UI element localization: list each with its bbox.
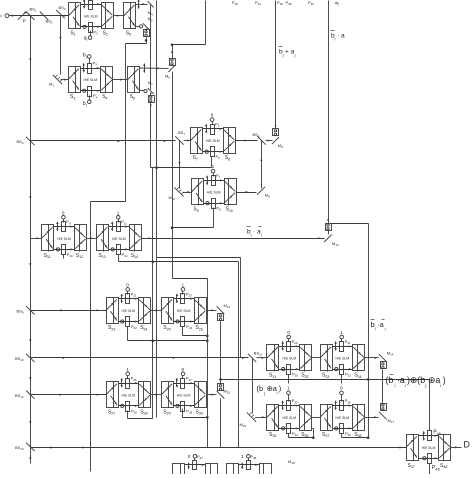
polarizer P24 <box>181 317 193 331</box>
svg-text:i: i <box>261 233 262 238</box>
svg-text:· a: · a <box>337 33 345 40</box>
svg-text:j: j <box>263 390 265 395</box>
polarizing splitter S3 <box>68 67 81 101</box>
source bi <box>83 96 91 108</box>
polarizing combiner S30 <box>195 382 207 416</box>
beamsplitter BS11 <box>248 351 263 363</box>
lens <box>176 293 178 303</box>
waveplate <box>206 202 209 205</box>
wire <box>114 15 124 17</box>
modulator M8 <box>273 129 279 136</box>
svg-text:H/E SLM: H/E SLM <box>112 237 126 241</box>
mirror M8 <box>272 137 283 149</box>
wire out D <box>451 446 462 448</box>
wire <box>429 464 431 475</box>
SLM text <box>122 393 136 397</box>
svg-text:i: i <box>395 383 396 388</box>
source 0 <box>188 454 197 461</box>
wire <box>126 43 147 45</box>
modulator <box>144 30 150 37</box>
polarizer P12 <box>117 245 128 258</box>
wire bus <box>240 258 242 358</box>
beamsplitter BS9 <box>17 306 35 314</box>
svg-text:·a: ·a <box>377 320 384 329</box>
polarizing combiner S38 <box>353 405 365 439</box>
source 0 <box>210 113 214 125</box>
polarizing combiner S14 <box>130 225 142 260</box>
svg-text:0: 0 <box>340 385 343 390</box>
wire <box>204 202 225 204</box>
source ai <box>84 31 92 42</box>
polarizer P2 <box>89 23 99 36</box>
polarizing splitter S35 <box>267 405 279 439</box>
beamsplitter BS3 <box>56 5 66 18</box>
waveplate <box>423 457 426 460</box>
wire <box>171 44 206 47</box>
wire <box>9 15 69 17</box>
polarizing splitter S40 (cut) <box>227 464 239 475</box>
wire <box>125 44 127 202</box>
polarizing combiner S12 <box>75 225 87 260</box>
beamsplitter BS2 <box>40 12 53 25</box>
lens <box>143 63 145 73</box>
wire <box>239 464 260 466</box>
wire <box>205 1 207 45</box>
svg-text:j: j <box>424 383 426 388</box>
svg-text:j: j <box>282 53 284 58</box>
svg-text:0: 0 <box>287 330 290 335</box>
polarizer P37 <box>193 454 204 469</box>
wire bus <box>156 1 158 418</box>
cut label P32 <box>308 0 314 6</box>
polarizing splitter S27 <box>106 382 119 416</box>
svg-text:): ) <box>279 384 281 393</box>
polarizing splitter S9 <box>191 179 203 214</box>
SLM text <box>283 357 297 361</box>
beamsplitter BS12 <box>15 391 35 400</box>
waveplate <box>121 320 124 323</box>
wire <box>279 345 300 347</box>
polarizer P29 <box>287 339 298 352</box>
source 0 <box>126 283 130 295</box>
waveplate <box>83 89 86 92</box>
mirror M6 <box>165 65 176 80</box>
wire bus <box>367 370 383 404</box>
svg-text:H/E SLM: H/E SLM <box>177 309 191 313</box>
wire <box>257 357 267 359</box>
svg-text:1: 1 <box>117 210 120 215</box>
mirror M12 <box>324 234 339 247</box>
mirror M4 <box>148 1 154 16</box>
SLM text <box>283 416 297 420</box>
polarizing combiner S28 <box>139 382 151 416</box>
polarizer P26 <box>126 402 138 415</box>
beamsplitter BS7 <box>175 130 185 145</box>
source 1 <box>211 164 215 176</box>
modulator M7 <box>149 96 155 103</box>
wire <box>87 237 97 239</box>
label (bi.ai)xor(bj+ai) <box>386 375 446 388</box>
beamsplitter BS13 <box>15 443 35 452</box>
wire <box>151 394 162 396</box>
wire <box>54 248 75 250</box>
waveplate <box>335 427 338 430</box>
source 1 <box>126 367 130 379</box>
polarizing splitter S5 <box>124 3 136 37</box>
lens <box>282 341 284 351</box>
wire P30 down + source 1 <box>287 375 291 402</box>
wire <box>429 380 431 431</box>
label M18 <box>288 459 295 465</box>
cut label P18 <box>232 0 238 6</box>
SLM text <box>122 309 136 313</box>
lens <box>241 462 243 469</box>
label bj+aj <box>279 47 296 58</box>
modulator M15 <box>218 384 224 391</box>
polarizer P5 <box>211 122 220 135</box>
lens <box>176 378 178 388</box>
wire <box>140 67 169 69</box>
cut label P28 <box>286 0 292 6</box>
beamsplitter BS10 <box>15 354 35 362</box>
combiner (cut) <box>260 464 272 475</box>
wire bus <box>152 168 154 419</box>
wire row G <box>31 357 249 359</box>
polarizing splitter S39 (cut) <box>173 464 185 475</box>
wire <box>128 418 153 420</box>
wire <box>174 298 195 300</box>
polarizing combiner S32 <box>300 345 312 379</box>
beamsplitter BS4 <box>17 137 35 145</box>
svg-text:H/E SLM: H/E SLM <box>84 14 98 18</box>
polarizer P21 <box>126 291 137 303</box>
wire <box>207 309 217 311</box>
wire <box>419 435 439 437</box>
wire <box>61 79 69 81</box>
source bj <box>83 52 91 63</box>
polarizing splitter S13 <box>97 225 109 260</box>
svg-text:0: 0 <box>182 367 185 372</box>
polarizer P32 <box>340 365 352 378</box>
wire <box>171 45 173 59</box>
lens <box>335 341 337 351</box>
mirror M15 <box>217 388 231 398</box>
wire <box>81 90 101 92</box>
wire <box>151 309 162 311</box>
wire bus <box>238 262 240 448</box>
svg-text:0: 0 <box>62 210 65 215</box>
mirror M1 <box>49 75 62 88</box>
wire BS8-M9 <box>260 141 262 189</box>
wire <box>157 257 241 259</box>
svg-text:H/E SLM: H/E SLM <box>207 191 221 195</box>
wire <box>174 320 195 322</box>
SLM text <box>336 357 350 361</box>
polarizer P3 <box>88 61 98 74</box>
waveplate <box>176 404 179 407</box>
cut label P24 <box>255 0 261 6</box>
SLM text <box>112 237 126 241</box>
wire <box>109 248 130 250</box>
svg-text:H/E SLM: H/E SLM <box>57 237 71 241</box>
svg-text:1: 1 <box>340 330 343 335</box>
wire <box>119 405 139 407</box>
waveplate <box>56 248 59 251</box>
svg-text:i: i <box>440 383 441 388</box>
wire bus <box>219 322 222 384</box>
svg-text:⊕a: ⊕a <box>428 375 440 385</box>
polarizer P28 <box>181 402 193 415</box>
wire <box>174 405 195 407</box>
polarizing splitter S1 <box>68 3 80 37</box>
polarizer P8 <box>212 199 222 212</box>
label D <box>464 439 470 449</box>
polarizing combiner S10 <box>225 179 237 214</box>
wire <box>266 139 273 141</box>
svg-text:i: i <box>385 327 386 332</box>
wire <box>333 405 353 407</box>
modulator M6 <box>170 59 176 66</box>
lens <box>423 431 425 441</box>
lens <box>111 221 113 231</box>
lens <box>205 124 207 134</box>
polarizing splitter S7 <box>191 128 203 162</box>
wire <box>237 191 257 193</box>
SLM text <box>177 393 191 397</box>
polarizer P45 <box>428 430 441 441</box>
lens <box>282 400 284 410</box>
wire <box>333 368 353 370</box>
polarizer P9 <box>62 219 71 231</box>
svg-text:1: 1 <box>287 385 290 390</box>
wire BS7 down <box>178 141 180 189</box>
wire <box>81 3 102 5</box>
mirror M16 <box>240 413 257 429</box>
lens <box>56 221 58 231</box>
wire bus <box>368 224 370 438</box>
polarizer P31 <box>340 339 351 352</box>
lens <box>188 462 190 469</box>
beamsplitter BS1 <box>26 6 37 20</box>
SLM text <box>84 78 98 82</box>
wire <box>127 327 129 341</box>
wire <box>333 427 353 429</box>
polarizer P11 <box>117 219 128 231</box>
svg-text:i: i <box>405 383 406 388</box>
wire <box>203 128 224 130</box>
waveplate <box>335 368 338 371</box>
wire <box>312 357 321 359</box>
mirror M5 <box>143 16 153 29</box>
svg-text:i: i <box>277 390 278 395</box>
wire bus <box>327 1 329 224</box>
SLM text <box>422 446 436 450</box>
wire <box>203 151 224 153</box>
wire <box>174 382 195 384</box>
waveplate <box>83 25 86 28</box>
svg-text:H/E SLM: H/E SLM <box>206 139 220 143</box>
combiner (cut) <box>206 464 218 475</box>
beamsplitter BS8 <box>253 132 266 145</box>
cut label a)j <box>334 0 340 6</box>
wire bus <box>150 5 152 90</box>
wire <box>365 357 379 359</box>
polarizer P22 <box>126 317 138 331</box>
wire <box>183 191 192 193</box>
wire bus <box>220 399 222 448</box>
svg-text:H/E SLM: H/E SLM <box>283 357 297 361</box>
svg-text:i: i <box>375 327 376 332</box>
wire BS3 down <box>59 16 61 75</box>
polarizer P33 <box>287 398 298 410</box>
wire <box>127 411 129 419</box>
wire <box>81 67 101 69</box>
polarizer P <box>18 11 27 23</box>
wire <box>256 416 267 418</box>
label bi.a <box>331 31 346 42</box>
wire P28 loop <box>183 409 209 419</box>
polarizing splitter S6 <box>128 67 140 101</box>
mirror M17 <box>379 412 394 424</box>
wire <box>81 26 102 28</box>
svg-text:H/E SLM: H/E SLM <box>177 393 191 397</box>
label (bj xor ai) <box>257 384 282 395</box>
polarizing combiner S24 <box>139 298 151 332</box>
mirror M13 <box>217 303 231 314</box>
wire <box>136 3 148 5</box>
wire <box>221 379 430 381</box>
wire + junction <box>145 38 148 44</box>
polarizing combiner S8 <box>224 128 236 162</box>
source 1 <box>241 454 250 461</box>
waveplate <box>140 25 143 28</box>
svg-text:(b: (b <box>257 384 264 393</box>
wire <box>312 417 321 419</box>
wire <box>279 405 300 407</box>
wire <box>142 237 325 239</box>
lens <box>121 378 123 388</box>
source 1 <box>181 283 185 295</box>
polarizer P7 <box>212 173 221 186</box>
polarizer P10 <box>62 245 73 258</box>
wire <box>213 208 215 228</box>
svg-text:1: 1 <box>182 283 185 288</box>
waveplate <box>176 320 179 323</box>
polarizer P6 <box>211 147 221 161</box>
svg-text:+ a: + a <box>285 49 295 56</box>
polarizer P27 <box>181 376 193 389</box>
polarizer P23 <box>181 291 193 303</box>
source 0 <box>287 330 291 341</box>
svg-text:H/E SLM: H/E SLM <box>422 446 436 450</box>
wire <box>119 260 239 263</box>
polarizer P35 <box>340 398 351 410</box>
wire bus <box>150 103 152 168</box>
wire <box>113 79 128 81</box>
wire <box>63 255 65 259</box>
modulator M17 <box>381 404 387 411</box>
polarizing splitter S29 <box>161 382 173 416</box>
polarizing splitter S33 <box>320 345 333 379</box>
svg-text:(b: (b <box>386 375 394 385</box>
modulator M12 <box>326 224 332 231</box>
wire bus <box>172 72 174 279</box>
waveplate <box>282 427 285 430</box>
svg-text:)⊕(b: )⊕(b <box>407 375 425 385</box>
label bi.ai <box>247 227 263 238</box>
SLM text <box>206 139 220 143</box>
wire <box>140 90 144 92</box>
lens <box>83 0 85 9</box>
polarizing splitter S37 <box>320 405 333 439</box>
wire <box>365 416 379 418</box>
waveplate <box>282 368 285 371</box>
wire <box>211 157 213 168</box>
wire P34 loop <box>289 429 315 440</box>
svg-text:· a: · a <box>253 229 261 236</box>
lens <box>335 400 337 410</box>
mirror M9 <box>257 187 270 199</box>
polarizing splitter S11 <box>42 225 54 260</box>
source 0 <box>62 210 66 222</box>
wire row H <box>31 394 107 396</box>
wire <box>119 320 139 322</box>
source 0 <box>181 367 185 379</box>
wire <box>173 278 208 280</box>
wire <box>279 427 300 429</box>
mirror M14 <box>379 351 394 362</box>
wire <box>91 201 126 203</box>
SLM text <box>207 191 221 195</box>
polarizing splitter S31 <box>267 345 279 379</box>
polarizer P34 <box>287 424 299 437</box>
SLM text <box>177 309 191 313</box>
source 1 <box>340 330 344 341</box>
waveplate <box>144 89 147 92</box>
wire <box>184 139 191 141</box>
SLM text <box>336 416 350 420</box>
wire <box>333 345 353 347</box>
lens <box>121 293 123 303</box>
lens <box>137 0 139 9</box>
wire <box>171 226 214 229</box>
wire <box>419 457 439 459</box>
wire bus <box>275 1 277 129</box>
svg-text:0: 0 <box>188 454 191 459</box>
wire bus <box>90 202 92 472</box>
source 1 <box>116 210 120 222</box>
lens <box>83 63 85 73</box>
svg-text:H/E SLM: H/E SLM <box>122 309 136 313</box>
wire <box>54 226 75 228</box>
wire row J <box>31 446 407 448</box>
wire BS11 down <box>252 358 254 414</box>
wire <box>236 139 258 141</box>
polarizing combiner S48 <box>439 435 451 470</box>
svg-text:i: i <box>335 37 336 42</box>
polarizing combiner S2 <box>102 3 114 37</box>
svg-text:H/E SLM: H/E SLM <box>336 357 350 361</box>
modulator M13 <box>218 314 224 321</box>
polarizing combiner S26 <box>195 298 207 332</box>
wire <box>328 231 330 235</box>
wire P32 down + source 0 <box>340 375 344 402</box>
wire <box>128 340 209 343</box>
svg-text:j: j <box>294 53 296 58</box>
svg-text:P46: P46 <box>432 465 440 472</box>
modulator M14 <box>381 362 387 369</box>
polarizer P36 <box>340 424 352 437</box>
